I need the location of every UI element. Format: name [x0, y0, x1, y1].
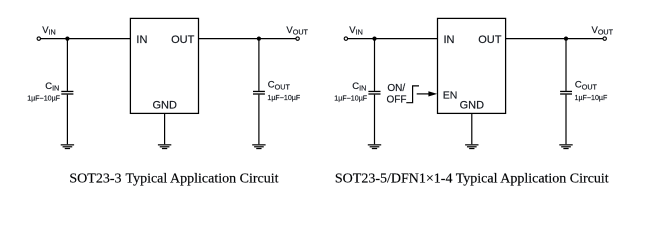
svg-text:Typical Application Circuit: Typical Application Circuit	[126, 172, 279, 187]
wire junction to CIN	[66, 39, 68, 91]
svg-text:COUT: COUT	[268, 80, 291, 92]
svg-text:1µF−10µF: 1µF−10µF	[575, 94, 608, 102]
svg-text:OFF: OFF	[387, 95, 407, 106]
ground (below COUT)	[252, 145, 265, 149]
wire CIN to ground	[66, 95, 68, 145]
capacitor CIN (right)	[368, 91, 380, 94]
regulator U1 box (SOT23-3)	[130, 18, 198, 113]
node VIN terminal (right circuit)	[344, 37, 347, 40]
svg-text:EN: EN	[443, 89, 458, 101]
svg-text:COUT: COUT	[575, 80, 598, 92]
wire CIN to ground (right)	[374, 95, 376, 145]
node VIN terminal (left circuit)	[37, 37, 40, 40]
wire GND pin to ground (right)	[471, 113, 473, 144]
wire GND pin to ground	[164, 113, 166, 144]
ground (below CIN right)	[368, 145, 381, 149]
svg-text:ON/: ON/	[387, 83, 405, 94]
node input junction (right circuit)	[372, 37, 376, 41]
node output junction (left circuit)	[257, 37, 261, 41]
svg-text:VOUT: VOUT	[592, 25, 614, 37]
wire junction to CIN (right)	[374, 39, 376, 91]
svg-text:IN: IN	[136, 34, 147, 46]
node output junction (right circuit)	[564, 37, 568, 41]
node VOUT terminal (right circuit)	[603, 37, 606, 40]
wire arrow to EN pin	[417, 93, 430, 95]
svg-text:CIN: CIN	[45, 81, 59, 93]
svg-text:OUT: OUT	[171, 34, 195, 46]
node VOUT terminal (left circuit)	[296, 37, 299, 40]
ground (below COUT right)	[559, 145, 572, 149]
svg-text:GND: GND	[460, 100, 485, 112]
capacitor COUT (right)	[560, 91, 572, 94]
wire ON/OFF bracket	[406, 86, 419, 103]
svg-text:CIN: CIN	[352, 81, 366, 93]
wire VIN terminal to IN pin (right)	[348, 38, 438, 40]
wire junction to COUT (right)	[565, 39, 567, 91]
svg-text:1µF−10µF: 1µF−10µF	[267, 94, 300, 102]
svg-text:VIN: VIN	[42, 25, 56, 37]
ground (below U2)	[465, 145, 478, 149]
svg-text:1µF−10µF: 1µF−10µF	[334, 95, 367, 103]
capacitor CIN	[61, 91, 73, 94]
wire COUT to ground	[258, 95, 260, 145]
svg-text:1µF−10µF: 1µF−10µF	[27, 95, 60, 103]
svg-text:OUT: OUT	[478, 34, 502, 46]
ground (below U1)	[158, 145, 171, 149]
wire COUT to ground (right)	[565, 95, 567, 145]
wire OUT pin to VOUT terminal (right)	[506, 38, 603, 40]
arrowhead at EN pin	[428, 91, 437, 96]
svg-text:VIN: VIN	[349, 25, 363, 37]
svg-text:IN: IN	[444, 34, 455, 46]
wire junction to COUT	[258, 39, 260, 91]
svg-text:VOUT: VOUT	[286, 25, 308, 37]
node input junction (left circuit)	[65, 37, 69, 41]
capacitor COUT	[253, 91, 265, 94]
svg-text:SOT23-5/DFN1×1-4 Typical Appli: SOT23-5/DFN1×1-4 Typical Application Cir…	[335, 172, 609, 187]
wire OUT pin to VOUT terminal	[199, 38, 296, 40]
regulator U2 box (SOT23-5/DFN1x1-4)	[438, 18, 506, 113]
wire VIN terminal to IN pin	[41, 38, 131, 40]
svg-text:GND: GND	[152, 100, 177, 112]
svg-text:SOT23-3: SOT23-3	[69, 172, 121, 187]
ground (below CIN)	[61, 145, 74, 149]
